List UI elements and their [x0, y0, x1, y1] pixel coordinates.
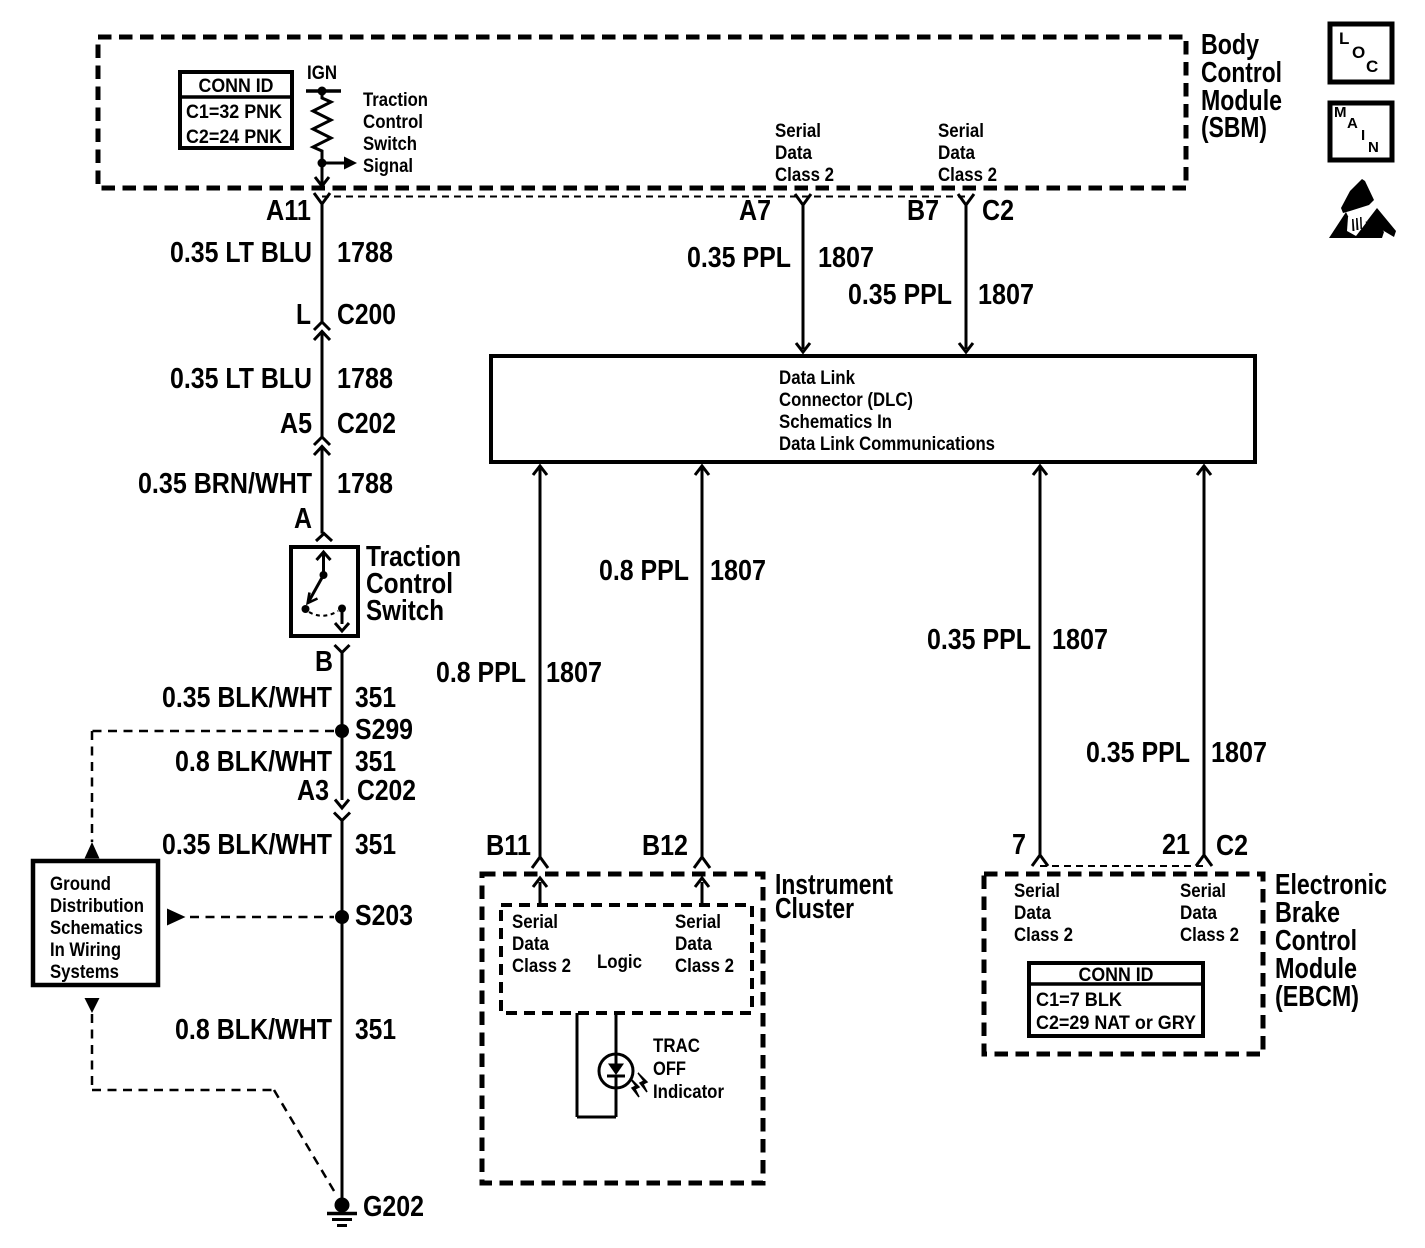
svg-text:Cluster: Cluster: [775, 893, 854, 925]
svg-text:351: 351: [355, 746, 396, 778]
label: serial data class 2 (EBCM pin 21): [1180, 881, 1239, 946]
svg-text:Control: Control: [363, 112, 423, 133]
svg-text:Class 2: Class 2: [1180, 925, 1239, 946]
svg-text:L: L: [1339, 29, 1349, 48]
label: Electronic Brake Control Module (EBCM): [1275, 869, 1387, 1013]
wire 0.35 BLK/WHT 351 (B to S299): [162, 653, 396, 732]
svg-text:Ground: Ground: [50, 874, 111, 895]
svg-text:G202: G202: [363, 1191, 424, 1223]
wire 0.35 LT BLU 1788 (C200 to C202): [170, 332, 393, 438]
svg-text:S299: S299: [355, 714, 413, 746]
svg-text:1788: 1788: [337, 237, 393, 269]
svg-text:1788: 1788: [337, 468, 393, 500]
svg-text:M: M: [1334, 104, 1347, 121]
svg-text:Switch: Switch: [363, 134, 417, 155]
svg-text:Serial: Serial: [512, 912, 558, 933]
svg-text:1807: 1807: [818, 242, 874, 274]
svg-text:Serial: Serial: [1014, 881, 1060, 902]
svg-text:1807: 1807: [1052, 624, 1108, 656]
svg-text:Data Link: Data Link: [779, 368, 855, 389]
arrow into logic (B12 side): [695, 878, 709, 905]
svg-text:Data: Data: [1180, 903, 1217, 924]
svg-text:Serial: Serial: [675, 912, 721, 933]
connector id table EBCM: [1029, 963, 1203, 1036]
svg-text:A: A: [1347, 115, 1358, 132]
svg-text:A5: A5: [280, 408, 312, 440]
svg-text:CONN ID: CONN ID: [199, 76, 274, 97]
svg-text:Class 2: Class 2: [775, 165, 834, 186]
svg-text:(SBM): (SBM): [1201, 112, 1267, 144]
svg-text:CONN ID: CONN ID: [1079, 965, 1154, 986]
svg-text:Data: Data: [775, 143, 812, 164]
dashed reference ground distribution box to G202: [85, 998, 338, 1196]
wire: lamp loop: [577, 1013, 616, 1117]
label: serial data class 2 (BCM pin A7): [775, 121, 834, 186]
splice S203: [335, 900, 413, 932]
svg-text:Data: Data: [1014, 903, 1051, 924]
svg-text:Traction: Traction: [363, 90, 428, 111]
switch: Traction Control Switch box: [291, 547, 358, 636]
svg-text:I: I: [1361, 127, 1365, 144]
svg-text:Data: Data: [675, 934, 712, 955]
svg-text:0.35 PPL: 0.35 PPL: [687, 242, 791, 274]
connector row line under BCM: [322, 196, 966, 198]
svg-text:C200: C200: [337, 299, 396, 331]
icon: ESD sensitive device symbol: [1329, 179, 1396, 238]
svg-text:OFF: OFF: [653, 1059, 686, 1080]
svg-text:0.35 LT BLU: 0.35 LT BLU: [170, 363, 312, 395]
svg-text:Data: Data: [512, 934, 549, 955]
LED lamp: TRAC OFF Indicator: [599, 1036, 725, 1103]
svg-text:Class 2: Class 2: [1014, 925, 1073, 946]
svg-text:A11: A11: [266, 195, 311, 227]
svg-text:IGN: IGN: [307, 63, 337, 84]
pin B7 / C2: [907, 194, 1014, 227]
svg-text:7: 7: [1012, 829, 1026, 861]
wire 0.8 PPL 1807 (DLC to B12): [599, 466, 766, 868]
label: Instrument Cluster: [775, 869, 893, 925]
arrow into logic (B11 side): [533, 878, 547, 905]
arrow: Traction Control Switch Signal: [322, 90, 428, 177]
svg-text:A: A: [294, 503, 312, 535]
svg-text:Data: Data: [938, 143, 975, 164]
logic box: [501, 905, 752, 1013]
wire 0.35 PPL 1807 (A7 to DLC): [687, 205, 874, 352]
connector C200 pin L: [296, 299, 396, 340]
module box: Instrument Cluster: [482, 874, 763, 1183]
pin A of traction control switch: [294, 503, 332, 541]
reference box: Data Link Connector (DLC): [491, 356, 1255, 462]
wire 0.35 LT BLU 1788 (A11 to C200): [170, 204, 393, 322]
svg-text:1807: 1807: [710, 555, 766, 587]
svg-text:C2: C2: [1216, 830, 1248, 862]
svg-text:Distribution: Distribution: [50, 896, 144, 917]
svg-text:1807: 1807: [546, 657, 602, 689]
svg-text:B: B: [315, 646, 333, 678]
svg-text:Data Link Communications: Data Link Communications: [779, 434, 995, 455]
label: serial data class 2 (cluster B11): [512, 912, 571, 977]
svg-text:0.35 PPL: 0.35 PPL: [1086, 737, 1190, 769]
svg-text:C2: C2: [982, 195, 1014, 227]
svg-text:N: N: [1368, 139, 1379, 156]
wire 0.8 PPL 1807 (DLC to B11): [436, 466, 602, 868]
icon: LOC page reference: [1330, 24, 1392, 82]
svg-text:In Wiring: In Wiring: [50, 940, 121, 961]
pin 21 / C2: [1162, 829, 1248, 862]
dashed reference S299 to ground distribution box: [85, 731, 335, 859]
pin A7: [739, 194, 811, 227]
label: Traction Control Switch: [366, 541, 461, 627]
svg-text:C1=7 BLK: C1=7 BLK: [1036, 990, 1122, 1011]
pin B of traction control switch: [315, 645, 350, 678]
svg-text:O: O: [1352, 43, 1365, 62]
svg-text:C2=29 NAT or GRY: C2=29 NAT or GRY: [1036, 1013, 1196, 1034]
svg-text:C: C: [1366, 57, 1378, 76]
svg-text:1807: 1807: [1211, 737, 1267, 769]
svg-text:Connector (DLC): Connector (DLC): [779, 390, 913, 411]
svg-text:Class 2: Class 2: [938, 165, 997, 186]
wire 0.35 PPL 1807 (DLC to EBCM pin 21): [1086, 466, 1267, 866]
node: signal tap junction: [318, 159, 327, 168]
svg-text:1788: 1788: [337, 363, 393, 395]
svg-text:Class 2: Class 2: [512, 956, 571, 977]
svg-text:S203: S203: [355, 900, 413, 932]
svg-text:Systems: Systems: [50, 962, 119, 983]
svg-text:Indicator: Indicator: [653, 1082, 725, 1103]
svg-text:21: 21: [1162, 829, 1190, 861]
svg-text:C1=32 PNK: C1=32 PNK: [186, 102, 282, 123]
svg-text:L: L: [296, 299, 311, 331]
svg-text:351: 351: [355, 682, 396, 714]
svg-text:(EBCM): (EBCM): [1275, 981, 1359, 1013]
svg-text:0.35 BLK/WHT: 0.35 BLK/WHT: [162, 682, 332, 714]
label: serial data class 2 (cluster B12): [675, 912, 734, 977]
svg-text:TRAC: TRAC: [653, 1036, 700, 1057]
svg-text:0.35 BRN/WHT: 0.35 BRN/WHT: [138, 468, 312, 500]
resistor: traction control switch pull-up: [313, 91, 331, 163]
wire 0.35 BRN/WHT 1788 (C202 to pin A): [138, 447, 393, 534]
svg-text:C202: C202: [357, 775, 416, 807]
svg-text:Serial: Serial: [1180, 881, 1226, 902]
label: serial data class 2 (BCM pin B7): [938, 121, 997, 186]
svg-text:A7: A7: [739, 195, 771, 227]
svg-text:Logic: Logic: [597, 952, 642, 973]
module box: Electronic Brake Control Module (EBCM): [984, 874, 1263, 1054]
connector id table BCM: [180, 72, 292, 148]
svg-text:Class 2: Class 2: [675, 956, 734, 977]
svg-text:Serial: Serial: [938, 121, 984, 142]
wire: resistor to BCM border, down arrow: [315, 163, 329, 186]
icon: MAIN page reference: [1330, 103, 1392, 160]
wire 0.35 PPL 1807 (DLC to EBCM pin 7): [927, 466, 1108, 866]
svg-text:A3: A3: [297, 775, 329, 807]
svg-text:0.35 PPL: 0.35 PPL: [848, 279, 952, 311]
svg-text:Schematics: Schematics: [50, 918, 143, 939]
ground G202: [327, 1191, 424, 1226]
dashed reference S203 to ground distribution box: [167, 909, 334, 926]
module box: Body Control Module (SBM): [98, 37, 1186, 188]
svg-text:0.35 BLK/WHT: 0.35 BLK/WHT: [162, 829, 332, 861]
svg-text:Switch: Switch: [366, 595, 444, 627]
svg-text:C202: C202: [337, 408, 396, 440]
switch internal contacts: [302, 552, 350, 631]
connector C202 pin A3: [297, 775, 416, 821]
svg-text:B12: B12: [642, 830, 688, 862]
svg-text:0.35 PPL: 0.35 PPL: [927, 624, 1031, 656]
svg-text:351: 351: [355, 1014, 396, 1046]
label: Body Control Module (SBM): [1201, 29, 1282, 144]
svg-text:C2=24 PNK: C2=24 PNK: [186, 127, 282, 148]
svg-text:Serial: Serial: [775, 121, 821, 142]
svg-text:1807: 1807: [978, 279, 1034, 311]
svg-text:0.8 BLK/WHT: 0.8 BLK/WHT: [175, 1014, 332, 1046]
svg-text:Schematics In: Schematics In: [779, 412, 892, 433]
svg-text:Signal: Signal: [363, 156, 413, 177]
node: IGN feed: [306, 63, 341, 96]
pin A11: [266, 193, 330, 227]
svg-text:351: 351: [355, 829, 396, 861]
svg-text:0.35 LT BLU: 0.35 LT BLU: [170, 237, 312, 269]
wire 0.35 BLK/WHT 351 (C202 to S203): [162, 821, 396, 918]
connector C202 pin A5: [280, 408, 396, 455]
svg-text:0.8 PPL: 0.8 PPL: [436, 657, 526, 689]
label: serial data class 2 (EBCM pin 7): [1014, 881, 1073, 946]
wire 0.8 BLK/WHT 351 (S299 to C202): [175, 731, 396, 800]
wire 0.8 BLK/WHT 351 (S203 to G202): [175, 917, 396, 1199]
splice S299: [335, 714, 413, 746]
reference box: Ground Distribution Schematics In Wiring Systems: [33, 861, 158, 985]
svg-text:B11: B11: [486, 830, 531, 862]
svg-text:0.8 BLK/WHT: 0.8 BLK/WHT: [175, 746, 332, 778]
svg-text:B7: B7: [907, 195, 939, 227]
svg-text:0.8 PPL: 0.8 PPL: [599, 555, 689, 587]
connector row line EBCM: [1040, 865, 1204, 867]
wire 0.35 PPL 1807 (B7 to DLC): [848, 205, 1034, 352]
